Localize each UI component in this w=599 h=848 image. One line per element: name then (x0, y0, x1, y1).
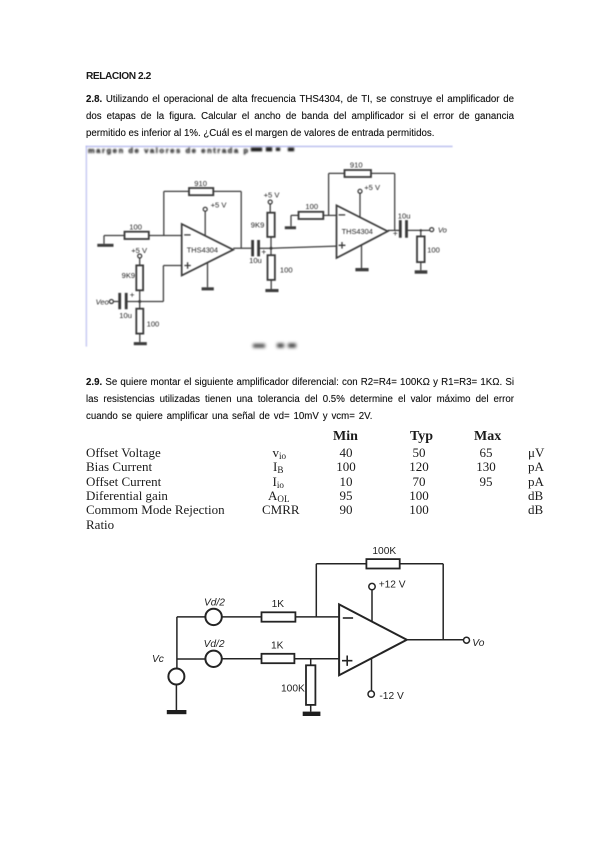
op-amp U3 (339, 604, 407, 675)
pin minus (U2) (339, 214, 346, 216)
resistor 100K (to ground) (306, 665, 315, 705)
resistor 9K9 (stage 2 bias) (267, 213, 274, 237)
wire: plus node down to 100K (310, 659, 312, 666)
resistor 100 (output load) (417, 236, 425, 262)
+5 V supply terminal (U2) (358, 189, 362, 193)
wire: bottom branch to Vd/2 (177, 658, 206, 660)
resistor 910 (stage 1 feedback) (189, 188, 213, 195)
row 3: Offset Current (86, 474, 161, 490)
wire: ground stub left (103, 236, 105, 244)
resistor 1K (lower) (262, 654, 295, 663)
row 1: Offset Voltage (86, 445, 161, 461)
wire: node B to U2 plus (271, 246, 337, 248)
resistor 100K (feedback) (366, 559, 399, 568)
pin minus (U1) (184, 234, 190, 236)
ground (left of R 100) (97, 244, 113, 247)
wire: 100K to ground (310, 705, 312, 712)
wire: 9K9 to node B (270, 237, 272, 248)
resistor 100 (stage 2 bias lower) (268, 255, 275, 280)
wire: feedback right vertical (stage 2) (394, 173, 396, 230)
svg-text:+12 V: +12 V (379, 579, 406, 590)
wire: U1 to ground (207, 263, 209, 288)
wire: bias to 9K9 (139, 258, 141, 265)
wire: feedback left vertical (315, 564, 317, 617)
wire: Vd/2 to 1K (lower) (222, 658, 262, 660)
cropped text smudge (top of scan) (88, 146, 294, 155)
svg-text:-12 V: -12 V (379, 691, 404, 702)
wire: U3 to -12V (371, 658, 373, 691)
wire: C1 to node A to U1 plus (127, 266, 181, 302)
ground (100K) (303, 712, 321, 716)
svg-text:Vc: Vc (152, 654, 164, 665)
ground (U2) (355, 268, 368, 271)
wire: load to ground (420, 230, 422, 270)
wire: 100 to U2 minus (323, 214, 336, 216)
wire: Vd/2 to 1K (upper) (222, 616, 262, 618)
node A junction (138, 300, 141, 303)
resistor 910 (stage 2 feedback) (345, 170, 372, 177)
wire: U1 output (233, 247, 251, 249)
wire: C2 to node B (260, 247, 271, 249)
wire: ground stub (stage 2 inverting) (291, 215, 299, 226)
pin plus (U2) (339, 242, 346, 249)
svg-text:1K: 1K (272, 599, 285, 610)
wire: +12V to U3 (371, 590, 373, 621)
+5 V supply terminal (U1) (203, 207, 207, 211)
scan frame left border (86, 146, 88, 347)
resistor 100 (stage 1 inverting input) (125, 232, 149, 239)
svg-text:100K: 100K (372, 546, 396, 557)
header row (333, 429, 358, 445)
pin plus (U3) (342, 656, 352, 666)
wire: 1K to U3 minus (295, 616, 339, 618)
resistor 100 (stage 1 bias lower) (136, 309, 143, 334)
scan frame top border (86, 146, 453, 148)
wire: Veo to C1 (113, 301, 118, 303)
paragraph 2.9 (86, 374, 514, 425)
wire: C3 to Vo (408, 229, 430, 231)
op-amp U1 THS4304 (stage 1) (182, 224, 234, 276)
figure caption smudge (bottom of scan) (253, 344, 296, 348)
row 2: Bias Current (86, 459, 152, 475)
ground (U1) (202, 287, 214, 290)
resistor 100 (stage 2 inverting input) (299, 212, 324, 219)
capacitor C1 10u (120, 293, 127, 309)
wire: 9K9 to node A (139, 290, 141, 308)
resistor 9K9 (stage 1 bias) (136, 265, 143, 290)
-12 V supply terminal (368, 691, 374, 697)
ground (stage 2 inverting input) (285, 226, 296, 229)
terminal Vo (464, 637, 470, 643)
ground (stage 2 bias) (265, 289, 278, 292)
wire: node B to 100 and ground (270, 248, 272, 289)
row 5: Commom Mode Rejection (86, 502, 225, 518)
wire: feedback left vertical (stage 2) (328, 173, 330, 215)
paragraph 2.8 (86, 91, 514, 142)
resistor 1K (upper) (262, 612, 296, 621)
wire: feedback right vertical to output (240, 191, 242, 248)
+5 V bias terminal (stage 2 divider) (268, 200, 272, 204)
pin minus (U3) (343, 617, 353, 619)
wire: inverting input rail stage 1 (104, 235, 182, 237)
wire: U2 to ground (361, 245, 363, 268)
wire: bias to 9K9 (stage 2) (269, 204, 271, 213)
+5 V bias terminal (stage 1 input divider) (138, 254, 142, 258)
wire: supply to U1 (204, 211, 206, 236)
node C junction (420, 229, 423, 232)
op-amp U2 THS4304 (stage 2) (337, 205, 388, 258)
wire: Vc up to branches (176, 617, 178, 669)
title (86, 71, 151, 82)
svg-text:Vd/2: Vd/2 (204, 639, 225, 650)
svg-text:Vo: Vo (472, 638, 484, 649)
wire: feedback right vertical (442, 564, 444, 640)
wire: 100 to ground (139, 334, 141, 343)
wire: feedback left vertical (163, 191, 165, 235)
ground (stage 1 bias) (134, 342, 147, 345)
wire: feedback top (stage 2) (329, 172, 395, 174)
wire: Vc to ground (175, 685, 177, 711)
wire: feedback top (316, 563, 443, 565)
node B junction (270, 247, 273, 250)
wire: feedback top (164, 190, 241, 192)
terminal Vo (430, 228, 434, 232)
ground (Vc) (167, 710, 187, 714)
svg-text:100K: 100K (281, 683, 305, 694)
wire: supply to U2 (359, 193, 361, 217)
ground (output load) (415, 270, 428, 273)
wire: 1K to U3 plus (294, 658, 339, 660)
row 6 (86, 517, 114, 533)
svg-text:1K: 1K (271, 640, 284, 651)
wire: U2 output (388, 229, 399, 231)
row 4: Diferential gain (86, 488, 168, 504)
capacitor C2 10u (coupling) (253, 240, 259, 256)
+12 V supply terminal (369, 583, 375, 589)
svg-text:Vd/2: Vd/2 (204, 597, 225, 608)
capacitor C3 10u (output) (400, 220, 406, 238)
wire: U3 output to Vo (407, 639, 464, 641)
pin plus (U1) (184, 262, 190, 268)
wire: top branch to Vd/2 (177, 616, 206, 618)
